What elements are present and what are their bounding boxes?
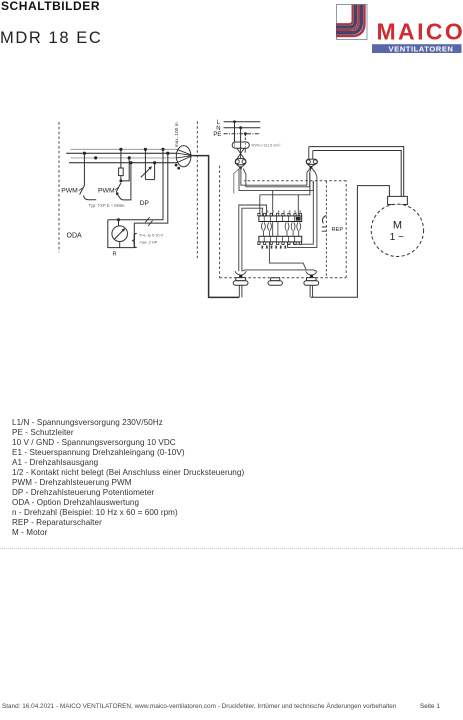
enclosure boundary dashed box [220,166,347,278]
svg-text:REP: REP [332,227,344,233]
wire N [224,127,261,129]
junction dot 10V/R1 [119,148,122,151]
VENTILATOREN bar [372,44,462,53]
switch S1 actuator mark [79,188,83,191]
mains entry funnel [237,165,245,168]
junction dot below ellipse 1 [175,164,178,167]
terminal labels top [261,210,300,212]
junction dot A1/S2 [129,161,132,164]
wire interior horizontal 1 [239,169,313,190]
wire drop to strip b [297,195,299,216]
wire bus E1 (light) [71,157,178,159]
motor cable gland nut [306,159,317,164]
motor cable entry node [310,166,313,169]
conductor count slash marks [145,217,152,226]
wire interior horizontal 2 [260,173,310,195]
potentiometer R wiper wire [118,220,120,226]
cable gland 3 nut [307,278,317,281]
wire PE stub inside [234,168,240,194]
wire R1 to E1 [121,158,129,181]
wire bus GND [66,152,177,154]
svg-text:PE: PE [213,132,221,138]
wire gland1 to strip 2 [242,208,263,271]
svg-text:DP: DP [140,200,150,207]
svg-text:Typ: TXP E + 6KBe: Typ: TXP E + 6KBe [89,203,126,208]
wire bottom long run [243,270,317,271]
potentiometer DP right leg [154,163,156,180]
junction dot 10V/ODA [161,148,164,151]
junction dot GND/S1 [83,152,86,155]
wire drop to strip c [272,190,274,216]
terminal labels bottom [262,246,287,249]
cable gland 1 bell [235,271,246,275]
wire bus 10V b [71,148,178,150]
svg-text:{: { [132,231,138,248]
junction dot R wiper [117,218,120,221]
wire PE (dash-dot) [224,133,261,135]
switch S2 output wire to A1 [117,163,131,200]
potentiometer DP bottom [145,179,154,181]
resistor R1 feed wire [120,149,122,168]
gland3 risers below [310,285,313,297]
motor M1 circle [371,204,423,256]
motor terminal box [388,196,408,204]
switch S1 output wire [83,195,96,199]
wire motor pair right vertical 1 [293,181,313,244]
switch S2 hinge dot [116,192,119,195]
motor cable gland (top) wires above [309,147,313,159]
junction dot 10V/DP [144,148,147,151]
junction dot A1/DP [153,161,156,164]
wire N inside [243,169,311,187]
wire motor feed left [311,186,390,298]
cable transition ellipse [176,146,191,167]
wire drop to strip a [259,195,261,216]
wire N drop [240,128,242,142]
node R1/S2 [119,179,122,182]
MAICO logo [0,0,463,60]
cable gland 3 bell [306,271,317,275]
junction dot below ellipse 2 [177,167,180,170]
room boundary dashed line [196,121,198,259]
logo striped J band [336,5,364,37]
mains strain relief nut [235,159,246,165]
junction dot GND/ODA [166,152,169,155]
svg-text:1 ~: 1 ~ [390,232,404,243]
wire L drop [234,122,236,142]
wire L inside [241,168,307,185]
motor cable bell flare [307,168,315,172]
junction dot L [233,120,236,123]
mains entry node [239,166,242,169]
jumper arcs between strips [262,222,301,237]
cable twist [237,148,245,158]
wire strip to gland3 lower [269,242,306,270]
wire gland1 to strip 1 [239,205,267,271]
cable gland 1 risers below [239,285,242,297]
potentiometer R arrow [114,230,123,239]
cable gland 1 node [239,275,242,278]
svg-text:M: M [393,220,402,232]
wire motor run inner [313,151,401,197]
wire PE drop (dashed) [244,134,246,142]
switch S2 PWM blade [116,183,121,192]
potentiometer R loop [108,220,135,248]
wire motor run outer [309,147,404,197]
cable gland 3 node [310,275,313,278]
terminal strip X1 bottom row [259,236,302,242]
cable gland 1 nut [236,278,246,281]
mains cable grommet [232,142,249,148]
ODA wire upper [108,149,163,220]
potentiometer DP arrow [141,168,151,178]
cable gland 2 (unused) nut [271,278,280,281]
svg-text:R: R [113,252,117,258]
svg-text:VENTILATOREN: VENTILATOREN [389,45,454,54]
terminal teeth top row [258,213,302,216]
junction dot PE [244,132,247,135]
wire motor pair right vertical 2 [288,172,317,247]
control cable to unit [193,156,240,298]
ODA wire lower [134,153,168,223]
junction dot E1 [94,156,97,159]
svg-text:PWM: PWM [61,188,78,195]
REP switch marks [322,227,327,231]
svg-text:ODA: ODA [67,232,83,239]
terminal strip X1 dark end terminal [296,217,301,221]
junction dot E1/R1 [128,156,131,159]
switch S1 PWM wire [83,153,85,185]
junction dot N [239,126,242,129]
svg-text:NYM-J 3x1,5 mm²: NYM-J 3x1,5 mm² [252,143,282,147]
svg-text:max. 100 m: max. 100 m [174,122,180,147]
resistor R1 lower wire [120,176,122,181]
switch S1 PWM blade [80,186,85,195]
REP switch contact [323,216,327,224]
svg-text:P+L-Ip 0-10 V: P+L-Ip 0-10 V [140,233,164,237]
svg-text:PWM: PWM [98,188,115,195]
ODA option boundary dashed line [58,122,60,252]
potentiometer DP left leg [144,149,146,179]
potentiometer R bottom stub [119,242,121,248]
resistor R1 [119,168,124,176]
cable transition converging wires [177,149,193,162]
potentiometer R circle [112,226,128,242]
terminal strip X1 top row [259,216,302,222]
logo square frame [337,5,368,40]
REP switch dashed link [325,181,327,278]
wire bus A1 [69,162,177,164]
terminal teeth bottom row [258,242,302,245]
switch S2 actuator mark [115,187,119,190]
svg-text:max. 2 HP: max. 2 HP [140,241,158,245]
wire L [224,121,261,123]
motor cable entry converge [308,164,315,166]
svg-text:MAICO: MAICO [377,19,463,45]
